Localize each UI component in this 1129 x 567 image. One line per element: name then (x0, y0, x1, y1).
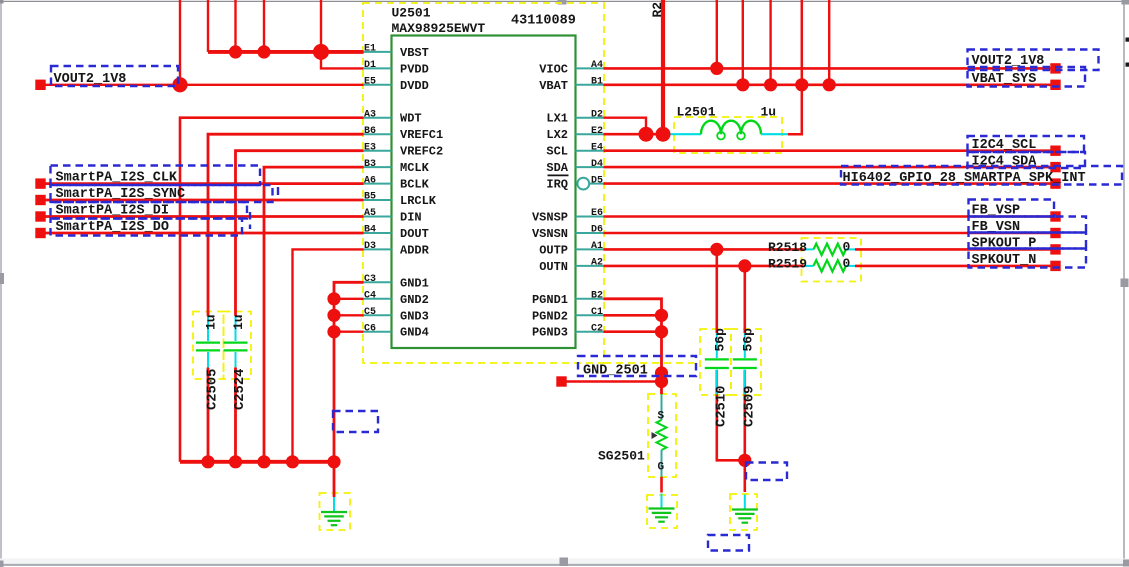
net box GND_2501 (578, 356, 696, 376)
svg-text:56p: 56p (741, 328, 756, 352)
net box SPKOUT_N (969, 249, 1087, 268)
wire C2509 to bottom node (743, 370, 746, 460)
svg-text:C2510: C2510 (715, 386, 730, 427)
node junction at 235.5,461.8 (229, 455, 242, 468)
wire C2510 to C2509 bottom node (717, 370, 745, 460)
wire C2505 to ground bus (207, 368, 210, 462)
node junction at 801.8,84.8 (795, 78, 808, 91)
node junction at 744.8,460.3 (738, 454, 751, 467)
frame handle bottom-left (0, 561, 4, 567)
net box empty near C2509 node (746, 463, 787, 481)
wire SmartPA_I2S_SYNC to LRCLK (45, 199, 364, 202)
wire SmartPA_I2S_DI to DIN (45, 215, 364, 218)
svg-text:DIN: DIN (400, 211, 422, 225)
net box FB_VSP (969, 200, 1055, 217)
pin E1 VBST stub (364, 51, 392, 53)
node junction at 264,461.8 (257, 455, 270, 468)
pin A6 BCLK stub (364, 183, 392, 185)
net box FB_VSN (969, 217, 1087, 233)
svg-text:VREFC1: VREFC1 (400, 128, 443, 142)
wire top feed 3 to VBAT rail / L2501 (788, 0, 802, 134)
pin C1 PGND2 stub (576, 314, 604, 316)
terminal square at 1055.5,233.0 (1050, 228, 1060, 238)
node junction at 292.5,461.8 (286, 455, 299, 468)
frame handle left-middle (0, 273, 4, 284)
wire OUTP to R2518 (604, 248, 804, 251)
terminal square at 40.5,183.6 (35, 178, 45, 188)
svg-text:DVDD: DVDD (400, 79, 429, 93)
svg-text:LX1: LX1 (546, 112, 568, 126)
wire SG2501 to ground (660, 477, 663, 493)
frame bottom edge line (0, 564, 1129, 566)
node junction at 716.8,68.4 (710, 62, 723, 75)
svg-text:1u: 1u (231, 314, 246, 330)
net box VBAT_SYS (968, 67, 1086, 87)
svg-text:C6: C6 (364, 323, 376, 334)
frame bottom band (0, 559, 1129, 564)
part outline U2501 (yellow dashed) (363, 3, 604, 363)
svg-text:OUTN: OUTN (539, 260, 568, 274)
svg-text:SmartPA_I2S_SYNC: SmartPA_I2S_SYNC (56, 187, 186, 202)
svg-text:C1: C1 (591, 307, 603, 318)
part outline L2501 (yellow dashed) (674, 117, 782, 153)
svg-text:SPKOUT_N: SPKOUT_N (972, 253, 1037, 268)
node junction at 321,51.9 (313, 44, 329, 60)
pin E6 VSNSP stub (576, 216, 604, 218)
node junction at 208,461.8 (201, 455, 214, 468)
svg-text:E1: E1 (364, 44, 376, 55)
terminal square at 40.5,84.8 (35, 80, 45, 90)
svg-text:56p: 56p (713, 328, 728, 352)
part outline SG2501 (yellow dashed) (648, 394, 676, 477)
resistor R2519 (804, 260, 856, 271)
wire R2 feed to LX2 node (661, 0, 665, 134)
svg-text:SDA: SDA (546, 161, 568, 175)
svg-text:ADDR: ADDR (400, 243, 430, 257)
pin A2 OUTN stub (576, 265, 604, 267)
svg-text:GND1: GND1 (400, 276, 429, 290)
svg-text:D2: D2 (591, 109, 603, 120)
wire VBAT rail (604, 84, 1052, 87)
svg-text:D3: D3 (364, 241, 376, 252)
svg-text:VREFC2: VREFC2 (400, 145, 443, 159)
pin B5 LRCLK stub (364, 199, 392, 201)
svg-text:GND3: GND3 (400, 309, 429, 323)
pin D1 PVDD stub (364, 67, 392, 69)
node junction at 334.0,461.8 (327, 455, 340, 468)
svg-text:C2524: C2524 (233, 369, 248, 410)
pin D5 IRQ inversion bubble (577, 178, 589, 190)
node junction at 334.0,315.3 (327, 309, 340, 322)
pin C6 GND4 stub (364, 331, 392, 333)
wire VREFC2 to C2524 (236, 151, 364, 316)
svg-text:G: G (657, 462, 664, 474)
svg-text:SG2501: SG2501 (598, 449, 645, 464)
wire VSNSP rail (604, 215, 1052, 218)
wire LX1 to LX2 node (604, 118, 647, 135)
node junction at 235.5,51.9 (229, 45, 242, 58)
inductor L2501 (668, 121, 788, 140)
terminal square at 40.5,200.0 (35, 195, 45, 205)
svg-text:D1: D1 (364, 60, 376, 71)
overline for IRQ pin (548, 174, 569, 176)
part outline R2518/R2519 (yellow dashed) (802, 238, 862, 282)
wire top feed to VIOC rail (716, 0, 718, 68)
node junction at 264,51.9 (257, 45, 270, 58)
svg-text:R2519: R2519 (768, 256, 807, 271)
svg-text:1u: 1u (204, 314, 219, 330)
part outline C2510 (yellow dashed) (700, 329, 731, 395)
svg-text:B2: B2 (591, 291, 603, 302)
wire PGND2 (604, 314, 662, 317)
wire top feed to VOUT2_1V8 node (179, 0, 181, 85)
node junction at 829.2,84.8 (823, 78, 836, 91)
svg-text:SmartPA_I2S_DI: SmartPA_I2S_DI (56, 204, 169, 219)
wire bottom node to ground C2509 (743, 460, 746, 492)
terminal square at 40.5,233.0 (35, 228, 45, 238)
svg-text:C3: C3 (364, 274, 376, 285)
net box VOUT2_1V8 (left) (51, 66, 178, 86)
wire C2524 to ground bus (234, 368, 237, 462)
net box I2C4_SDA (968, 152, 1086, 168)
pin B6 VREFC1 stub (364, 133, 392, 135)
node junction at 663,134.2 (656, 127, 671, 142)
node junction at 646,134.2 (639, 127, 654, 142)
svg-text:VBST: VBST (400, 46, 429, 60)
ground symbol (C2509) (732, 495, 758, 523)
wire OUTN to C2509 (743, 266, 746, 333)
svg-text:VBAT: VBAT (539, 79, 568, 93)
frame left edge line (0, 2, 2, 560)
svg-text:0: 0 (843, 239, 851, 254)
svg-text:SmartPA_I2S_DO: SmartPA_I2S_DO (56, 220, 169, 235)
frame tick right edge lower (1126, 63, 1129, 67)
svg-text:A4: A4 (591, 60, 603, 71)
frame handle top-left (0, 0, 4, 4)
part outline ground symbol C2509 (yellow dashed) (730, 494, 757, 530)
svg-text:0: 0 (843, 256, 851, 271)
wire top feed 4 to VBAT rail (828, 0, 830, 85)
frame tick right edge upper (1126, 38, 1129, 42)
pin D4 SDA stub (576, 166, 604, 168)
part outline extension under GND_2501 (604, 362, 695, 364)
net box SmartPA_I2S_CLK (51, 166, 261, 186)
pin C5 GND3 stub (364, 314, 392, 316)
wire WDT to ground bus (180, 118, 364, 462)
node junction at 334.0,331.7 (327, 325, 340, 338)
pin A4 VIOC stub (576, 67, 604, 69)
part outline ground symbol SG2501 (yellow dashed) (647, 495, 677, 528)
capacitor C2510 (705, 333, 729, 395)
svg-text:43110089: 43110089 (511, 13, 576, 28)
svg-text:C4: C4 (364, 291, 376, 302)
pin E5 DVDD stub (364, 84, 392, 86)
node junction at 661.5,373 (655, 366, 668, 379)
net box stray dash 2 (249, 212, 251, 229)
wire top feed to PVDD (321, 0, 364, 68)
svg-text:MAX98925EWVT: MAX98925EWVT (392, 21, 486, 36)
IC U2501 body rectangle (392, 36, 576, 349)
svg-text:GND2: GND2 (400, 293, 429, 307)
wire R2519 to SPKOUT_N (855, 265, 1051, 268)
terminal square at 1055.5,249.4 (1050, 244, 1060, 254)
frame top edge line (3, 0, 1124, 2)
node junction at 742.8,84.8 (736, 78, 749, 91)
node junction at 661.5,381.5 (655, 375, 668, 388)
svg-text:C2505: C2505 (206, 369, 221, 410)
pin D6 VSNSN stub (576, 232, 604, 234)
terminal square at 1055.5,265.9 (1050, 261, 1060, 271)
svg-text:PVDD: PVDD (400, 62, 429, 76)
pin A3 WDT stub (364, 117, 392, 119)
part outline C2509 (yellow dashed) (731, 329, 761, 395)
spark gap SG2501 (652, 394, 667, 477)
terminal square at 1055.5,183.6 (1050, 178, 1060, 188)
svg-text:PGND3: PGND3 (532, 326, 568, 340)
svg-text:E3: E3 (364, 142, 376, 153)
net box SPKOUT_P (969, 233, 1087, 249)
net box VOUT2_1V8 (right) (968, 50, 1099, 71)
svg-text:LRCLK: LRCLK (400, 194, 437, 208)
terminal square at 1055.5,167.1 (1050, 162, 1060, 172)
svg-text:IRQ: IRQ (546, 178, 568, 192)
pin D3 ADDR stub (364, 248, 392, 250)
wire SmartPA_I2S_DO to DOUT (45, 232, 364, 235)
svg-text:E5: E5 (364, 77, 376, 88)
svg-text:R2518: R2518 (768, 240, 807, 255)
svg-text:B1: B1 (591, 77, 603, 88)
wire R2518 to SPKOUT_P (855, 248, 1051, 251)
pin A1 OUTP stub (576, 248, 604, 250)
net box stray dash 1 (277, 187, 279, 195)
svg-text:WDT: WDT (400, 112, 422, 126)
svg-text:A5: A5 (364, 208, 376, 219)
capacitor C2505 (196, 316, 220, 368)
frame handle top-right (1122, 0, 1129, 5)
net box empty bottom (708, 535, 749, 551)
wire GND_2501 stub (566, 380, 662, 383)
terminal square at 1055.5,84.8 (1050, 80, 1060, 90)
node junction at 180,84.8 (172, 77, 187, 92)
svg-text:BCLK: BCLK (400, 178, 430, 192)
svg-text:SCL: SCL (546, 145, 568, 159)
node junction at 744.8,265.9 (738, 259, 751, 272)
pin B4 DOUT stub (364, 232, 392, 234)
wire MCLK to ground bus (264, 167, 364, 462)
svg-text:C2: C2 (591, 323, 603, 334)
pin C2 PGND3 stub (576, 331, 604, 333)
pin E3 VREFC2 stub (364, 150, 392, 152)
pin B2 PGND1 stub (576, 298, 604, 300)
net box SmartPA_I2S_SYNC (51, 185, 273, 202)
net box SmartPA_I2S_DO (51, 219, 243, 236)
svg-text:VSNSN: VSNSN (532, 227, 568, 241)
wire PGND3 (604, 330, 662, 333)
svg-text:S: S (657, 411, 664, 423)
pin B3 MCLK stub (364, 166, 392, 168)
svg-text:A3: A3 (364, 109, 376, 120)
pin E4 SCL stub (576, 150, 604, 152)
svg-text:R2: R2 (650, 2, 665, 18)
wire top feed 1 to VBAT rail (742, 0, 744, 85)
svg-text:OUTP: OUTP (539, 243, 568, 257)
svg-text:L2501: L2501 (677, 105, 716, 120)
pin D5 IRQ stub (589, 183, 603, 185)
wire top feed to VBST (207, 0, 209, 52)
wire top feed 2 to VBST rail (234, 0, 236, 52)
wire top feed 3 to VBST rail (263, 0, 265, 52)
wire IRQ rail (604, 182, 1052, 185)
svg-text:VBAT_SYS: VBAT_SYS (972, 72, 1037, 87)
node junction at 661.5,315.3 (655, 309, 668, 322)
svg-text:A2: A2 (591, 258, 603, 269)
part outline C2505 (yellow dashed) (193, 312, 224, 380)
capacitor C2509 (733, 333, 757, 395)
wire ground bus (180, 460, 334, 464)
wire VBST rail (208, 50, 364, 54)
node junction at 334.0,298.8 (327, 292, 340, 305)
terminal square at 40.5,216.5 (35, 211, 45, 221)
wire LX2 to L2501 (604, 133, 671, 136)
wire VOUT2_1V8 to DVDD (45, 84, 364, 86)
svg-text:E4: E4 (591, 142, 603, 153)
svg-text:E2: E2 (591, 126, 603, 137)
wire top feed 2 to VBAT rail (769, 0, 771, 85)
wire OUTN to R2519 (604, 265, 804, 268)
terminal square at 561.5,381.5 (556, 376, 566, 386)
wire VIOC rail (604, 67, 1052, 70)
terminal square at 1055.5,68.4 (1050, 63, 1060, 73)
svg-text:VSNSP: VSNSP (532, 211, 568, 225)
svg-text:D5: D5 (591, 175, 603, 186)
wire GND1 to ground rail (334, 282, 364, 497)
svg-text:SmartPA_I2S_CLK: SmartPA_I2S_CLK (56, 171, 178, 186)
svg-text:MCLK: MCLK (400, 161, 430, 175)
svg-text:A1: A1 (591, 241, 603, 252)
svg-text:D4: D4 (591, 159, 603, 170)
pin E2 LX2 stub (576, 133, 604, 135)
svg-text:D6: D6 (591, 225, 603, 236)
frame handle bottom-right (1123, 560, 1129, 567)
ground symbol (SG2501) (649, 494, 675, 522)
terminal square at 1055.5,216.5 (1050, 211, 1060, 221)
node junction at 770.6,84.8 (764, 78, 777, 91)
part outline C2524 (yellow dashed) (224, 312, 252, 380)
svg-text:GND4: GND4 (400, 326, 429, 340)
svg-text:LX2: LX2 (546, 128, 568, 142)
svg-text:1u: 1u (761, 105, 777, 120)
wire GND2 (334, 298, 364, 300)
svg-text:E6: E6 (591, 208, 603, 219)
pin C3 GND1 stub (364, 281, 392, 283)
svg-text:A6: A6 (364, 175, 376, 186)
svg-text:B5: B5 (364, 192, 376, 203)
terminal square at 1055.5,150.7 (1050, 146, 1060, 156)
svg-text:C2509: C2509 (743, 386, 758, 427)
pin A5 DIN stub (364, 216, 392, 218)
pin C4 GND2 stub (364, 298, 392, 300)
frame handle top-middle (558, 0, 567, 5)
svg-text:B3: B3 (364, 159, 376, 170)
node junction at 716.8,249.4 (710, 243, 723, 256)
net box I2C4_SCL (968, 136, 1085, 152)
pin B1 VBAT stub (576, 84, 604, 86)
wire PGND1 to PGND rail (604, 299, 662, 394)
wire VREFC1 to C2505 (208, 134, 364, 316)
wire GND4 (334, 331, 364, 333)
wire OUTP to C2510 (715, 249, 718, 333)
wire SDA rail (604, 166, 1052, 169)
resistor R2518 (804, 244, 856, 255)
frame handle right-middle (1121, 279, 1129, 288)
wire SmartPA_I2S_CLK to BCLK (45, 182, 364, 185)
part outline ground symbol left (yellow dashed) (320, 493, 351, 530)
net box SmartPA_I2S_DI (51, 202, 248, 219)
svg-text:PGND2: PGND2 (532, 309, 568, 323)
svg-text:PGND1: PGND1 (532, 293, 568, 307)
frame handle bottom-middle (560, 558, 569, 567)
svg-text:U2501: U2501 (392, 6, 431, 21)
svg-text:B4: B4 (364, 225, 376, 236)
svg-text:VIOC: VIOC (539, 62, 568, 76)
wire VSNSN rail (604, 232, 1052, 235)
net box HI6402_GPIO_28_SMARTPA_SPK_INT (841, 166, 1122, 185)
svg-text:DOUT: DOUT (400, 227, 429, 241)
capacitor C2524 (224, 316, 248, 368)
svg-text:B6: B6 (364, 126, 376, 137)
pin D2 LX1 stub (576, 117, 604, 119)
ground symbol (left bus) (321, 497, 347, 525)
wire SCL rail (604, 149, 1052, 152)
node junction at 661.5,331.7 (655, 325, 668, 338)
svg-text:VOUT2_1V8: VOUT2_1V8 (54, 72, 127, 87)
wire ADDR to ground bus (293, 249, 364, 461)
net box empty near ground bus (333, 411, 378, 432)
svg-text:C5: C5 (364, 307, 376, 318)
frame right edge line (1123, 2, 1125, 563)
wire GND3 (334, 314, 364, 316)
